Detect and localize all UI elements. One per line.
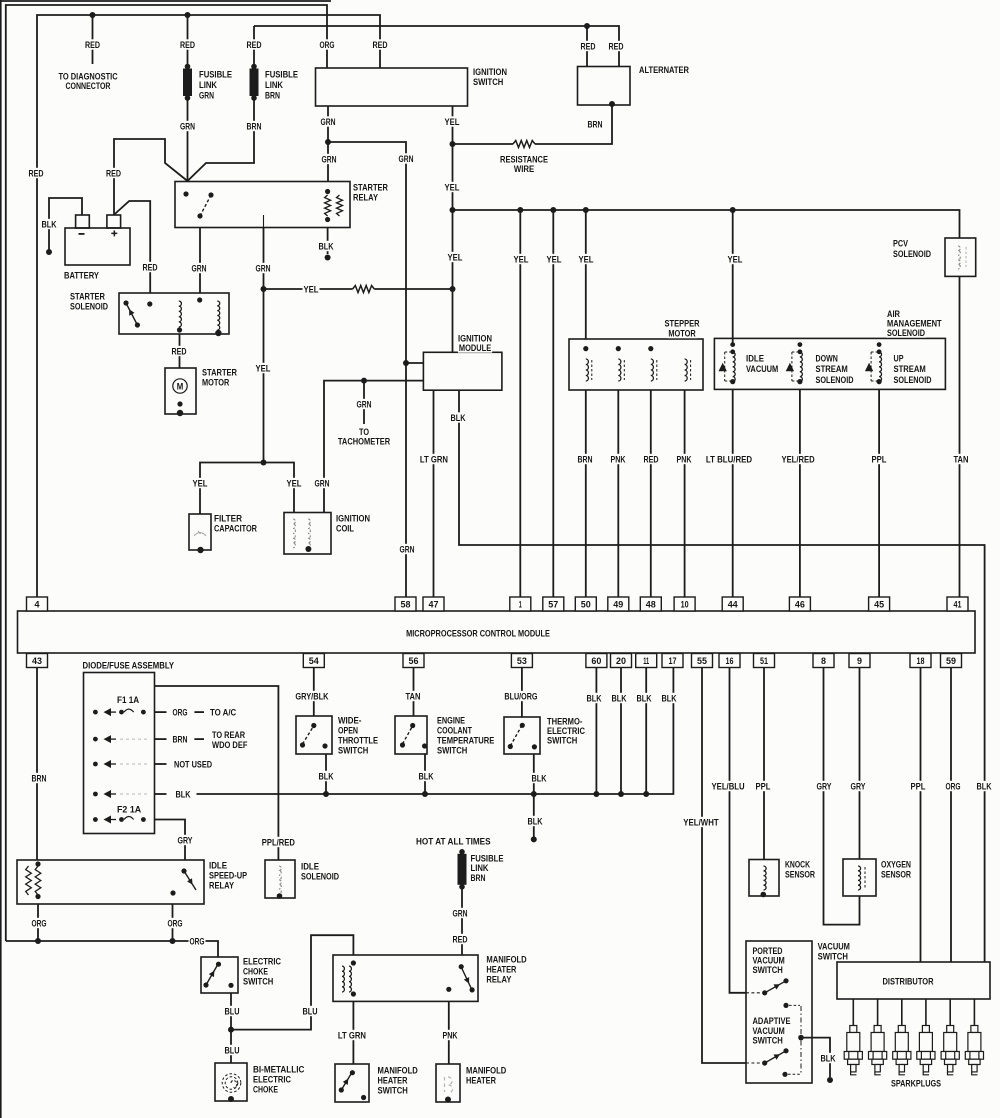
svg-text:54: 54 [309,656,320,667]
label YEL (starter motor branch) [255,363,272,375]
label IGNITION SWITCH [472,66,508,88]
svg-text:PPL: PPL [756,781,771,792]
stepper motor winding 2 [618,359,621,381]
node: WOT ground junction [323,791,329,797]
idle speed-up relay coil zigzag B [35,866,41,895]
wire: YEL to pin 1 [519,210,521,597]
label BLK (ground row) [175,789,192,801]
svg-text:RED: RED [172,346,187,357]
label LT BLU/RED [705,454,753,466]
node: up stream solenoid feed [877,342,882,347]
wire: BLU choke switch output [230,993,232,1063]
label BLK (pin 60) [586,693,603,705]
svg-text:SENSOR: SENSOR [881,869,911,880]
node: alternator BRN output [609,101,615,107]
scan border left edge [0,0,2,1118]
label RED (ignition switch feed) [372,39,389,51]
svg-text:BRN: BRN [471,873,486,884]
label YEL (filter capacitor) [192,478,209,490]
diode row BLK [93,790,148,798]
vacuum switch common dash-dot bar [800,1006,802,1073]
pin 50 (top row) [575,597,596,611]
ignition coil secondary winding (faint) [308,519,310,548]
distributor [837,962,990,999]
svg-text:45: 45 [874,600,885,611]
label NOT USED [173,759,213,771]
svg-text:RED: RED [644,454,659,465]
node: down stream solenoid feed [798,342,803,347]
node: mh relay coil top [351,960,356,965]
tick ORG row [155,711,167,713]
label STARTER MOTOR [201,367,238,389]
filter capacitor [189,514,211,550]
svg-text:BRN: BRN [32,773,47,784]
fusible link BRN [250,64,259,101]
svg-text:STREAM: STREAM [894,364,926,375]
label GRY (pin 9) [850,781,867,793]
pin 1 (top row) [510,597,531,611]
ignition coil [284,513,331,555]
electric choke switch [201,957,238,993]
node: idle vacuum solenoid coil bottom [730,379,735,384]
pin 20 (bottom row) [611,654,632,668]
label THERMO-ELECTRIC SWITCH [546,716,586,747]
svg-text:CONNECTOR: CONNECTOR [66,81,111,92]
diode row BRN [93,735,148,743]
label RED (alternator right) [608,41,625,53]
node: bus junction stepper wire [583,207,589,213]
node: tachometer branch [361,378,367,384]
label ORG (relay out B) [167,918,184,930]
bi-metallic electric choke [215,1063,247,1101]
down stream solenoid dashed frame [792,352,800,381]
label GRY/BLK [294,691,329,703]
wire: BRN from alternator to resistance wire [535,105,612,144]
node: stepper coil 1 top [583,346,588,351]
label ORG (relay out A) [31,918,48,930]
microprocessor control module [18,611,976,653]
thermo-electric switch contacts [508,723,537,750]
label BRN (alternator output) [587,119,604,131]
svg-text:GRY: GRY [178,835,193,846]
svg-text:10: 10 [681,600,689,611]
label FILTER CAPACITOR [213,513,258,535]
wire: sparkplug lead 4 [925,999,927,1026]
svg-text:SWITCH: SWITCH [547,735,577,746]
svg-text:UP: UP [894,353,904,364]
svg-text:BLK: BLK [176,789,191,800]
svg-text:PPL/RED: PPL/RED [262,837,295,848]
node: pin 11 ground junction [643,791,649,797]
svg-text:BRN: BRN [265,90,280,101]
node: stepper coil 2 top [616,346,621,351]
svg-text:YEL/BLU: YEL/BLU [712,781,745,792]
svg-text:SWITCH: SWITCH [753,1036,783,1047]
wire: ORG bus to electric choke switch [6,941,218,957]
wire: YEL/RED down stream to pin 46 [799,389,801,597]
svg-text:M: M [177,382,184,393]
pin 48 (top row) [640,597,661,611]
wire: YEL branch to capacitor and coil [200,463,294,515]
label BI-METALLIC ELECTRIC CHOKE [252,1064,305,1096]
starter relay switch [183,191,213,218]
wide-open throttle switch [296,716,332,754]
label GRN (tachometer) [356,399,373,411]
up stream solenoid dashed frame [871,352,879,381]
label AIR MANAGEMENT SOLENOID [886,308,943,339]
svg-text:MICROPROCESSOR CONTROL MODULE: MICROPROCESSOR CONTROL MODULE [406,628,550,639]
engine coolant temperature switch [395,716,427,754]
label RED (stepper 3) [643,454,660,466]
thermo-electric switch [504,717,540,754]
label MANIFOLD HEATER [465,1065,507,1087]
svg-text:50: 50 [581,600,591,611]
tick BRN row [155,738,167,740]
label ALTERNATER [638,64,690,76]
wire: GRY from diode/fuse to idle speed-up relay [155,820,186,861]
svg-text:BLU: BLU [303,1006,318,1017]
svg-text:LT BLU/RED: LT BLU/RED [706,454,752,465]
svg-text:TO A/C: TO A/C [210,708,236,719]
PCV solenoid [945,238,976,276]
svg-text:FUSIBLE: FUSIBLE [199,69,232,80]
pin 17 (bottom row) [662,654,683,668]
sparkplug 6 [965,1026,983,1075]
node: ignition coil ground [305,546,311,552]
pin 60 (bottom row) [586,654,607,668]
starter solenoid [119,293,229,334]
label RED (left feed) [28,168,45,180]
label ORG (to A/C) [172,707,189,719]
node: battery ground dot [46,249,52,255]
label PNK (stepper 2) [610,454,627,466]
node: BLU junction [228,1027,234,1033]
svg-text:TACHOMETER: TACHOMETER [338,436,390,447]
svg-text:SWITCH: SWITCH [818,951,848,962]
wire: GRN relay to starter solenoid [199,228,201,294]
wire: PNK to manifold heater [448,1001,450,1064]
label TO A/C [209,707,237,719]
label BLK (thermo upper) [531,773,548,785]
svg-text:YEL: YEL [445,117,460,128]
label PNK (stepper 4) [676,454,693,466]
svg-text:GRN: GRN [400,544,415,555]
label IGNITION MODULE [457,333,493,354]
wire: PNK stepper to pin 10 [684,390,686,597]
label SPARKPLUGS [890,1078,942,1090]
wire: RED starter solenoid to starter motor [179,334,181,368]
starter motor [165,368,196,414]
manifold heater relay [333,955,478,1001]
svg-text:ORG: ORG [190,936,205,947]
label RED (diagnostic) [84,39,101,51]
svg-text:BATTERY: BATTERY [64,270,100,281]
svg-text:YEL: YEL [448,252,463,263]
svg-text:SOLENOID: SOLENOID [893,249,931,260]
svg-text:RED: RED [29,168,44,179]
node: GRN to ignition module [403,360,409,366]
label BLU (bi-metallic choke) [224,1045,241,1057]
label GRY (pin 8) [816,781,833,793]
wire: BLU to manifold heater relay [231,935,353,1029]
label TO REAR WDO DEF [211,729,248,751]
vacuum switch assembly [746,941,812,1083]
svg-text:55: 55 [697,656,708,667]
manifold heater switch [335,1064,369,1102]
wire: GRN from fusible link to starter relay [187,98,189,181]
label BLK (thermo lower) [527,816,544,828]
manifold heater relay coil A [342,966,344,992]
wire: sparkplug lead 1 [852,999,854,1026]
label LT GRN (manifold heater switch) [337,1030,367,1042]
node: solenoid input left [147,301,152,306]
label GRN (pin 58 wire) [399,544,416,556]
wire: sparkplug lead 6 [973,999,975,1026]
ignition switch [316,68,468,106]
pin 55 (bottom row) [692,654,713,668]
label BLK (ECT) [418,771,435,783]
wire: main RED/ORG feed, top-left frame [6,5,327,941]
node: solenoid input right [197,297,202,302]
svg-text:BLK: BLK [419,771,434,782]
node: solenoid coil A bottom [177,327,182,332]
label HOT AT ALL TIMES [415,836,492,848]
label YEL/BLU [711,781,746,793]
wire: YEL to pin 57 [552,210,554,597]
WOT switch contacts [300,723,328,749]
svg-text:BLK: BLK [612,693,627,704]
starter relay inner stub [263,215,265,228]
wire: YEL distribution bus [453,210,960,238]
wire: RED battery to starter solenoid [115,201,150,293]
wire: LT GRN ignition module to pin 47 [433,390,435,597]
wire: BLK ground bus [197,668,674,795]
starter solenoid coil B [217,301,219,330]
PCV solenoid coil (faint) [958,246,960,269]
wire: TAN from PCV solenoid to pin 41 [959,276,961,597]
resistor wire (zigzag) to ignition module [353,286,375,293]
pin 9 (bottom row) [849,654,870,668]
label YEL (below bus) [447,252,464,264]
pin 53 (bottom row) [511,654,532,668]
svg-text:SWITCH: SWITCH [338,745,368,756]
svg-text:RED: RED [453,934,468,945]
wire: BLK vacuum switch ground [801,1038,830,1077]
wire: stub to diagnostic connector [92,15,94,64]
stepper motor winding 1 [586,359,589,381]
svg-text:11: 11 [643,656,649,667]
wire: GRY pin 8 to oxygen sensor return [824,668,860,925]
stepper motor winding 3 [651,359,654,381]
svg-text:44: 44 [728,600,739,611]
node: mh relay coil bottom [351,991,356,996]
node: vacuum switch ground dot [827,1077,833,1083]
label YEL/WHT [682,817,719,829]
node: YEL junction above ignition coil [261,460,267,466]
label STARTER RELAY [352,182,389,204]
label GRN (branch) [321,154,338,166]
svg-text:VACUUM: VACUUM [746,364,778,375]
svg-text:BLK: BLK [319,771,334,782]
pin 18 (bottom row) [910,654,931,668]
diode row F2 [93,816,146,824]
label MICROPROCESSOR CONTROL MODULE [405,628,551,640]
bi-metallic choke spiral [222,1074,241,1093]
label TAN [953,454,970,466]
node: stepper coil 3 top [648,346,653,351]
svg-text:ALTERNATER: ALTERNATER [639,65,689,76]
label UP (up stream solenoid) [893,353,933,386]
svg-text:PCV: PCV [893,238,908,249]
stepper winding 4 dashed core [690,360,692,380]
svg-text:ORG: ORG [173,708,188,719]
svg-text:PNK: PNK [443,1030,458,1041]
label BLK (pin 11) [636,693,653,705]
node: ORG junction A [35,938,41,944]
pin 56 (bottom row) [403,654,424,668]
starter solenoid switch [123,300,140,327]
svg-text:TAN: TAN [954,454,969,465]
svg-text:RED: RED [581,41,596,52]
svg-text:IDLE: IDLE [746,353,764,364]
wire: RED battery positive up to relay [114,139,188,215]
svg-text:GRN: GRN [180,121,195,132]
label DISTRIBUTOR [882,976,935,988]
wire: YEL/WHT pin 55 to adaptive vacuum switch [702,668,746,1064]
svg-text:1: 1 [519,600,522,611]
wire: GRN output of ignition switch to starter relay coil [327,106,329,181]
node: up stream solenoid coil top [877,349,882,354]
label BLK (ignition module) [450,412,467,424]
svg-text:PNK: PNK [611,454,626,465]
svg-text:GRY: GRY [817,781,832,792]
label RED (fusible link GRN) [179,39,196,51]
svg-text:PPL: PPL [911,781,926,792]
label BLK (pin 17) [661,693,678,705]
svg-text:LINK: LINK [265,80,283,91]
tick BLK row [155,793,167,795]
label DOWN (down stream solenoid) [815,353,855,386]
svg-text:43: 43 [32,656,42,667]
svg-text:9: 9 [857,656,862,667]
alternator [578,67,631,106]
idle solenoid [265,860,295,898]
wire: BRN from fusible link to starter relay [188,98,255,181]
svg-text:RELAY: RELAY [353,192,379,203]
node: pin 20 ground junction [618,791,624,797]
wire: BLK ignition module ground run [459,390,985,962]
wire: RED drop to fusible link GRN [187,15,189,66]
svg-text:RED: RED [106,168,121,179]
label RED (to starter solenoid) [142,262,159,274]
label OXYGEN SENSOR [880,859,912,881]
svg-text:HEATER: HEATER [466,1075,496,1086]
svg-text:53: 53 [517,656,527,667]
label FUSIBLE LINK BRN [264,69,299,102]
svg-text:PNK: PNK [677,454,692,465]
label BATTERY [63,270,100,282]
starter relay [175,182,350,228]
label RED (manifold feed) [452,934,469,946]
svg-text:48: 48 [646,600,656,611]
label YEL (stepper wire) [578,254,595,266]
label F1 1A [116,694,140,706]
pin 46 (top row) [789,597,810,611]
diode row F1/ORG [93,708,146,716]
svg-text:BRN: BRN [247,121,262,132]
label WIDE-OPEN THROTTLE SWITCH [337,715,379,757]
svg-text:RED: RED [180,40,195,51]
label VACUUM SWITCH [817,941,851,963]
node: down stream solenoid coil top [798,349,803,354]
manifold heater relay switch [446,964,475,992]
wire: sparkplug lead 3 [901,999,903,1026]
svg-text:BLK: BLK [451,413,466,424]
pin 57 (top row) [543,597,564,611]
svg-text:BRN: BRN [173,735,188,746]
svg-text:56: 56 [409,656,419,667]
node: relay coil bottom (idle speed-up) [35,894,40,899]
label GRN (manifold feed) [452,908,469,920]
svg-text:SOLENOID: SOLENOID [70,301,108,312]
svg-text:GRN: GRN [399,154,414,165]
label ENGINE COOLANT TEMPERATURE SWITCH [436,715,495,757]
svg-text:51: 51 [760,656,769,667]
label RESISTANCE WIRE [499,154,549,175]
svg-text:YEL: YEL [287,478,302,489]
idle vacuum solenoid check valve triangle [719,363,727,371]
svg-text:59: 59 [946,656,956,667]
wire: YEL/BLU pin 16 to ported vacuum switch [730,668,747,993]
wire: GRY pin 9 to oxygen sensor [859,668,861,860]
svg-text:YEL: YEL [547,254,562,265]
svg-text:SPARKPLUGS: SPARKPLUGS [891,1078,941,1089]
ignition coil primary winding (faint) [293,519,295,548]
down stream solenoid check valve triangle [786,363,794,371]
node: starter motor ground [177,410,183,416]
svg-text:YEL/RED: YEL/RED [782,454,815,465]
pin 51 (bottom row) [754,654,775,668]
wire: BLK from WOT switch [325,754,327,794]
node: starter motor lower [177,401,182,406]
oxygen sensor [843,859,876,896]
stepper motor winding 4 [685,359,688,381]
label BLK (WOT) [318,771,335,783]
label PNK (manifold heater) [442,1030,459,1042]
battery [65,228,130,265]
svg-text:WDO DEF: WDO DEF [212,740,248,751]
node: idle vacuum solenoid feed [730,342,735,347]
svg-text:YEL: YEL [193,478,208,489]
wire: BRN stepper to pin 50 [585,390,587,597]
idle vacuum solenoid dashed frame [725,352,733,381]
wire: BLK pin 60 to ground bus [595,668,597,795]
wire: RED feed line to pin 4 and ignition switch [37,15,380,597]
svg-text:GRN: GRN [321,117,336,128]
label GRN (down at branch) [398,153,415,165]
ported vacuum switch entry dashes [746,992,761,994]
label ELECTRIC CHOKE SWITCH [242,956,282,988]
tick BRN row 2 [194,738,204,740]
pin 11 (bottom row) [636,654,657,668]
svg-text:BLU: BLU [225,1045,240,1056]
wire: GRN relay second output down [263,228,265,463]
label TO DIAGNOSTIC CONNECTOR [58,71,119,92]
wire: BLK from relay coil [327,228,329,255]
pin 10 (top row) [674,597,695,611]
svg-text:LINK: LINK [199,80,217,91]
svg-text:RELAY: RELAY [486,974,512,985]
